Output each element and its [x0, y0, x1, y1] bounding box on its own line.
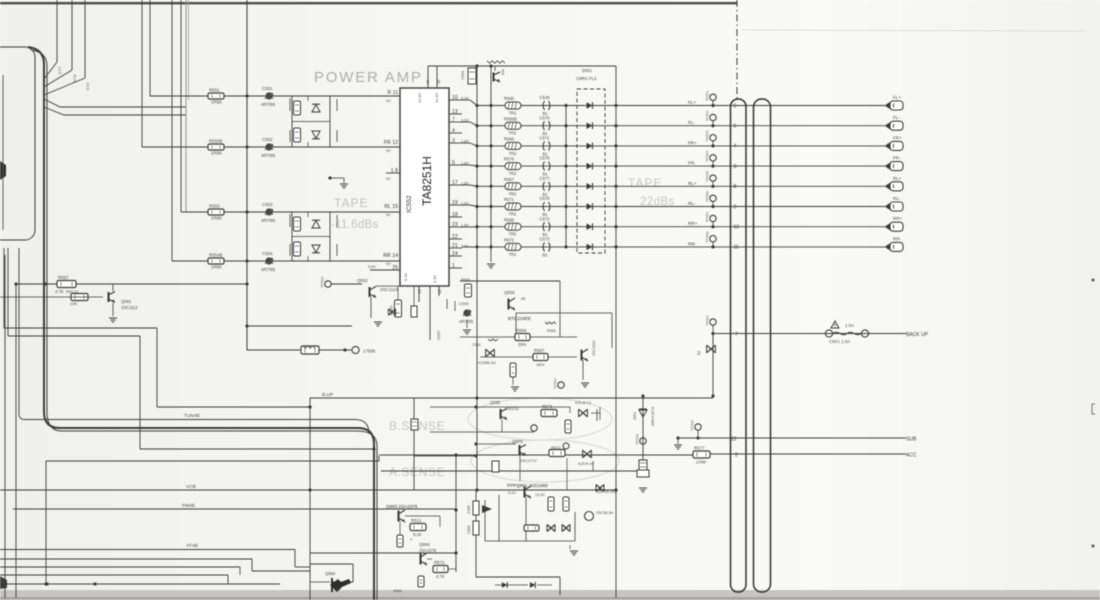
- svg-text:YF4B: YF4B: [186, 543, 198, 549]
- svg-text:R554B: R554B: [209, 252, 222, 257]
- svg-text:K25.R.A7: K25.R.A7: [578, 462, 594, 466]
- svg-text:17568: 17568: [363, 349, 376, 354]
- svg-text:2: 2: [735, 453, 738, 459]
- svg-text:A.SENSE: A.SENSE: [389, 465, 445, 479]
- svg-text:C570: C570: [540, 115, 551, 120]
- svg-text:TP562: TP562: [691, 420, 695, 431]
- svg-text:R553: R553: [209, 203, 220, 208]
- svg-text:B2: B2: [697, 351, 701, 355]
- svg-text:7R2: 7R2: [509, 131, 517, 136]
- svg-text:C573: C573: [540, 237, 551, 242]
- svg-text:1.0A: 1.0A: [845, 323, 854, 328]
- svg-text:2SD211: 2SD211: [505, 406, 520, 411]
- svg-text:16: 16: [417, 289, 422, 294]
- svg-text:23: 23: [452, 222, 458, 228]
- svg-text:5: 5: [734, 124, 737, 130]
- svg-text:23K: 23K: [70, 301, 77, 306]
- svg-text:7R2: 7R2: [509, 191, 517, 196]
- svg-text:2551: 2551: [633, 412, 637, 420]
- svg-text:FR-: FR-: [688, 161, 696, 166]
- svg-text:2SA1576: 2SA1576: [419, 548, 437, 553]
- svg-text:0V: 0V: [386, 149, 391, 153]
- svg-text:17: 17: [452, 180, 458, 186]
- svg-text:TP553: TP553: [321, 277, 325, 288]
- svg-text:5.2V: 5.2V: [508, 491, 516, 495]
- svg-text:7: 7: [452, 117, 455, 123]
- svg-text:2SC2712: 2SC2712: [520, 458, 537, 463]
- svg-text:Q585: Q585: [490, 400, 501, 405]
- svg-text:0V: 0V: [386, 262, 391, 266]
- svg-text:7R2: 7R2: [509, 232, 517, 237]
- svg-text:10: 10: [452, 95, 458, 101]
- svg-text:TP551: TP551: [706, 90, 710, 101]
- svg-text:R566: R566: [547, 329, 556, 333]
- svg-text:FR-: FR-: [893, 156, 901, 161]
- svg-text:4R7/95: 4R7/95: [261, 218, 276, 223]
- svg-text:RR+: RR+: [893, 216, 903, 221]
- svg-text:13: 13: [452, 109, 458, 115]
- svg-text:R511: R511: [411, 518, 422, 523]
- svg-text:FR+: FR+: [688, 140, 697, 145]
- svg-text:11R735-2K8: 11R735-2K8: [596, 490, 617, 494]
- svg-text:B1: B1: [543, 252, 549, 257]
- svg-text:4R7/95: 4R7/95: [261, 153, 276, 158]
- svg-text:3: 3: [734, 164, 737, 170]
- svg-text:9.1K: 9.1K: [413, 532, 422, 537]
- svg-text:C552: C552: [262, 137, 273, 142]
- svg-text:TP557: TP557: [706, 211, 710, 222]
- svg-text:7: 7: [735, 332, 738, 338]
- svg-text:R565: R565: [504, 96, 515, 101]
- svg-text:11: 11: [734, 245, 739, 251]
- svg-text:C5K1 1.5A: C5K1 1.5A: [829, 339, 850, 344]
- svg-text:RR 14: RR 14: [383, 253, 398, 259]
- svg-text:6.4V: 6.4V: [403, 273, 408, 281]
- svg-text:TAPE: TAPE: [628, 176, 662, 190]
- svg-text:Q561: Q561: [121, 299, 132, 304]
- svg-text:R572: R572: [504, 238, 515, 243]
- svg-text:4964: 4964: [393, 588, 403, 593]
- svg-text:10: 10: [734, 225, 740, 231]
- svg-text:TP561: TP561: [706, 315, 710, 326]
- svg-text:DRD4-B7/2: DRD4-B7/2: [651, 407, 655, 426]
- svg-text:19: 19: [452, 200, 458, 206]
- svg-text:4R7/95: 4R7/95: [261, 267, 276, 272]
- svg-text:13.5V: 13.5V: [535, 493, 545, 497]
- svg-text:R572: R572: [551, 445, 561, 450]
- svg-text:C555: C555: [459, 301, 469, 306]
- svg-text:14.3V: 14.3V: [417, 92, 422, 103]
- svg-text:7R2: 7R2: [509, 111, 517, 116]
- svg-text:R567: R567: [534, 348, 545, 353]
- svg-text:0V: 0V: [386, 213, 391, 217]
- svg-text:R565B: R565B: [504, 116, 517, 121]
- svg-text:3: 3: [452, 138, 455, 144]
- svg-text:FL-: FL-: [688, 120, 695, 125]
- svg-text:4.7K: 4.7K: [55, 289, 64, 294]
- svg-text:R550B: R550B: [209, 138, 222, 143]
- svg-text:R571: R571: [542, 404, 553, 409]
- svg-text:TP556: TP556: [706, 191, 710, 202]
- svg-text:B.UP: B.UP: [322, 392, 333, 398]
- svg-text:RL-: RL-: [688, 201, 696, 206]
- svg-text:7.8V: 7.8V: [461, 244, 469, 248]
- svg-text:TUN4B: TUN4B: [184, 413, 200, 419]
- svg-text:4R: 4R: [521, 297, 526, 301]
- svg-text:2SC1112: 2SC1112: [121, 305, 139, 310]
- svg-text:R566: R566: [504, 137, 515, 142]
- svg-text:FL+: FL+: [893, 95, 901, 100]
- svg-text:4: 4: [734, 144, 737, 150]
- svg-text:RL+: RL+: [688, 181, 697, 186]
- svg-text:BTC124EE: BTC124EE: [508, 316, 531, 321]
- svg-text:12: 12: [731, 437, 737, 443]
- svg-text:4.7K: 4.7K: [436, 574, 445, 579]
- svg-text:5.8V: 5.8V: [368, 265, 376, 269]
- svg-text:C565: C565: [467, 505, 471, 514]
- svg-text:Q964: Q964: [325, 571, 336, 576]
- svg-text:C572: C572: [540, 216, 551, 221]
- svg-text:2SC1113: 2SC1113: [380, 287, 398, 292]
- svg-text:7R2: 7R2: [509, 252, 517, 257]
- svg-text:TP555: TP555: [706, 171, 710, 182]
- svg-text:1R5K: 1R5K: [211, 151, 222, 156]
- svg-text:CMR1 PL2: CMR1 PL2: [576, 76, 597, 81]
- svg-text:R551: R551: [209, 87, 220, 92]
- svg-text:R577: R577: [694, 445, 705, 450]
- svg-text:Q963 2SA1576: Q963 2SA1576: [386, 504, 418, 509]
- svg-text:EXD: EXD: [86, 82, 90, 90]
- svg-text:R568: R568: [504, 217, 515, 222]
- svg-text:4R7/95: 4R7/95: [459, 319, 474, 324]
- svg-text:R 11: R 11: [387, 90, 398, 96]
- svg-text:R567: R567: [504, 177, 515, 182]
- svg-text:RL-: RL-: [893, 196, 901, 201]
- svg-text:9: 9: [734, 204, 737, 210]
- svg-text:C571: C571: [540, 136, 551, 141]
- svg-text:C577: C577: [540, 176, 551, 181]
- svg-text:2SC56.5A: 2SC56.5A: [596, 511, 614, 515]
- svg-text:-11.6dBs: -11.6dBs: [331, 219, 379, 231]
- svg-text:C554: C554: [262, 251, 273, 256]
- svg-text:R570: R570: [504, 157, 515, 162]
- svg-text:4: 4: [452, 128, 455, 134]
- svg-text:R5C12: R5C12: [66, 289, 79, 294]
- svg-text:Q964: Q964: [419, 542, 430, 547]
- svg-text:Q556: Q556: [504, 290, 515, 295]
- svg-text:C553: C553: [262, 202, 273, 207]
- svg-text:C557: C557: [436, 330, 441, 340]
- svg-text:POWER AMP: POWER AMP: [314, 69, 423, 86]
- svg-text:IC552: IC552: [406, 195, 413, 213]
- svg-text:22: 22: [452, 234, 458, 240]
- svg-text:5: 5: [452, 160, 455, 166]
- svg-text:KZ556.A2: KZ556.A2: [478, 360, 497, 365]
- svg-text:C566: C566: [467, 525, 471, 534]
- svg-text:18: 18: [452, 212, 458, 218]
- svg-text:TP557: TP557: [554, 378, 558, 389]
- svg-text:RR-: RR-: [893, 236, 902, 241]
- svg-text:0V: 0V: [386, 177, 391, 181]
- svg-text:7R2: 7R2: [509, 171, 517, 176]
- svg-text:SUB: SUB: [906, 437, 917, 443]
- svg-text:RR-: RR-: [688, 241, 697, 246]
- svg-text:TA8251H: TA8251H: [420, 156, 434, 206]
- svg-text:28%: 28%: [518, 342, 527, 347]
- svg-text:FR+: FR+: [893, 135, 902, 140]
- svg-text:24: 24: [452, 251, 458, 257]
- svg-text:TP553: TP553: [706, 131, 710, 142]
- svg-text:1.3V: 1.3V: [432, 275, 437, 283]
- svg-text:FL-: FL-: [893, 115, 900, 120]
- svg-text:0V: 0V: [386, 99, 391, 103]
- svg-text:PPPQ961 2SD1865: PPPQ961 2SD1865: [507, 483, 548, 488]
- svg-text:R572: R572: [434, 560, 445, 565]
- svg-text:C560: C560: [472, 343, 481, 347]
- svg-text:18: 18: [437, 289, 442, 294]
- svg-text:ECK: ECK: [73, 74, 77, 82]
- svg-text:R584: R584: [516, 328, 527, 333]
- svg-text:KIA: KIA: [501, 69, 505, 75]
- svg-text:RL 15: RL 15: [384, 204, 398, 210]
- svg-text:RR+: RR+: [688, 221, 698, 226]
- svg-text:21: 21: [452, 243, 458, 249]
- svg-text:1R5K: 1R5K: [211, 216, 222, 221]
- svg-text:TP552: TP552: [706, 110, 710, 121]
- svg-text:ACC: ACC: [906, 453, 917, 459]
- svg-text:TP563: TP563: [636, 434, 640, 445]
- svg-text:BACK UP: BACK UP: [906, 332, 929, 338]
- svg-text:D551: D551: [582, 68, 593, 73]
- svg-text:8: 8: [734, 184, 737, 190]
- svg-text:TAPE: TAPE: [334, 196, 368, 210]
- svg-text:+: +: [410, 537, 413, 542]
- svg-text:FL+: FL+: [688, 100, 696, 105]
- svg-text:TP558: TP558: [706, 232, 710, 243]
- svg-text:C553: C553: [461, 71, 465, 80]
- svg-text:7R2: 7R2: [509, 212, 517, 217]
- svg-text:1/4W: 1/4W: [696, 460, 706, 465]
- svg-text:TP554: TP554: [706, 151, 710, 162]
- svg-text:Q5P5: Q5P5: [512, 439, 523, 444]
- svg-text:1: 1: [452, 263, 455, 269]
- svg-text:1R5K: 1R5K: [211, 100, 222, 105]
- svg-text:4R7/95: 4R7/95: [261, 102, 276, 107]
- svg-text:14.3V: 14.3V: [434, 92, 439, 103]
- svg-text:R571: R571: [504, 197, 515, 202]
- svg-text:Q552: Q552: [357, 278, 368, 283]
- svg-text:C549: C549: [540, 95, 551, 100]
- svg-text:RL+: RL+: [893, 176, 902, 181]
- svg-text:7R2: 7R2: [509, 151, 517, 156]
- svg-text:EXT: EXT: [58, 66, 62, 74]
- svg-text:6: 6: [734, 103, 737, 109]
- svg-text:K25.B.C2: K25.B.C2: [575, 401, 591, 405]
- svg-text:FR 12: FR 12: [384, 140, 398, 146]
- svg-text:VCB: VCB: [186, 484, 196, 490]
- svg-text:C578: C578: [540, 196, 551, 201]
- svg-text:FM4B: FM4B: [182, 503, 195, 509]
- svg-text:1B%: 1B%: [536, 362, 545, 367]
- svg-text:1R5K: 1R5K: [211, 265, 222, 270]
- svg-text:2SC1112: 2SC1112: [591, 340, 596, 356]
- svg-text:C576: C576: [540, 156, 551, 161]
- svg-text:R557: R557: [58, 275, 69, 280]
- svg-text:C551: C551: [262, 86, 273, 91]
